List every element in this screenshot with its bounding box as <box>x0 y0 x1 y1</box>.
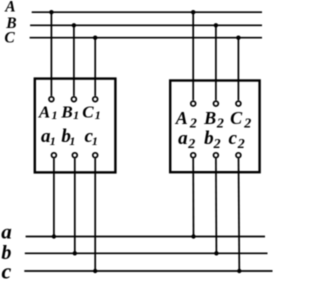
svg-text:1: 1 <box>73 108 79 122</box>
svg-text:2: 2 <box>213 137 221 152</box>
svg-text:1: 1 <box>95 108 101 122</box>
svg-text:A: A <box>38 103 50 122</box>
svg-text:C: C <box>82 103 94 122</box>
svg-text:c: c <box>2 258 12 283</box>
svg-text:2: 2 <box>243 117 251 132</box>
svg-text:1: 1 <box>92 134 98 148</box>
svg-text:C: C <box>230 108 243 128</box>
svg-text:1: 1 <box>52 108 58 122</box>
svg-text:2: 2 <box>237 137 245 152</box>
svg-text:a: a <box>178 128 188 149</box>
svg-text:1: 1 <box>50 134 56 148</box>
svg-text:C: C <box>4 29 15 46</box>
svg-text:2: 2 <box>216 117 224 132</box>
svg-text:A: A <box>175 108 188 128</box>
svg-text:1: 1 <box>69 134 75 148</box>
svg-text:B: B <box>60 103 72 122</box>
svg-text:b: b <box>204 128 214 149</box>
svg-text:2: 2 <box>189 117 197 132</box>
svg-text:A: A <box>4 0 15 16</box>
svg-text:B: B <box>203 108 216 128</box>
svg-text:2: 2 <box>187 137 195 152</box>
svg-text:a: a <box>1 220 12 244</box>
svg-text:c: c <box>229 128 238 149</box>
